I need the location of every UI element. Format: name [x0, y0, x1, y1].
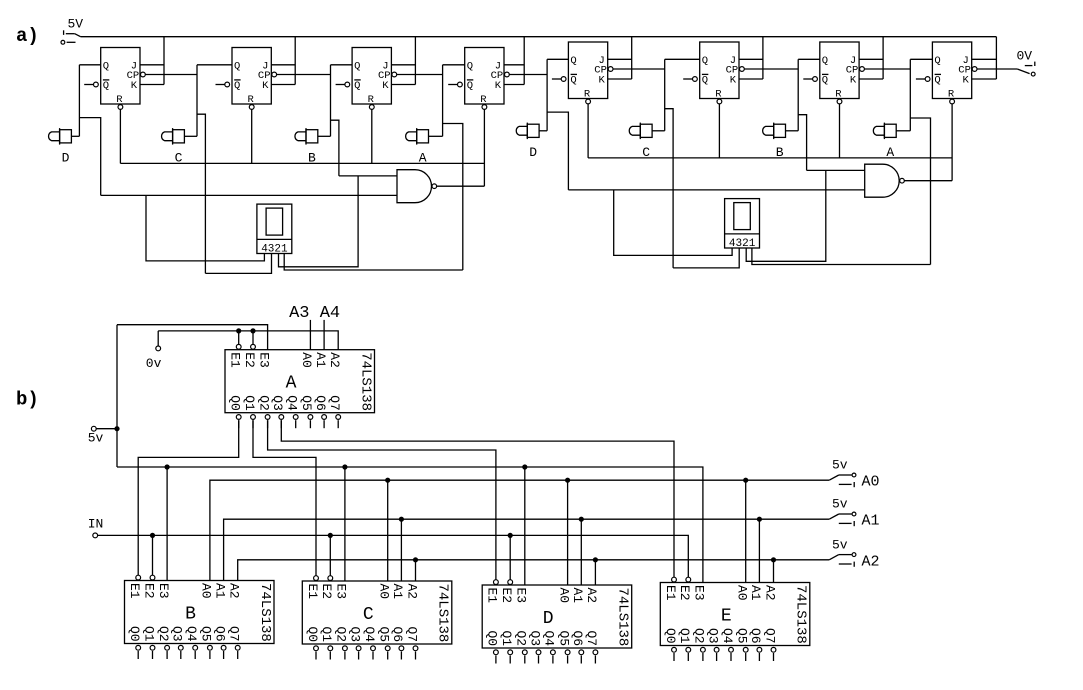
5V clock switch: [61, 17, 83, 45]
wire CPb2 from Qb3: [744, 68, 798, 70]
svg-text:E3: E3: [514, 588, 529, 604]
svg-text:Q6: Q6: [748, 628, 763, 644]
wire 5v to A.E3 and distribution: [97, 428, 118, 430]
svg-text:Q: Q: [234, 80, 240, 92]
wire Ra1 reset: [119, 109, 121, 163]
wire display a pin1: [284, 254, 463, 271]
svg-text:K: K: [730, 75, 737, 87]
svg-text:K: K: [599, 75, 606, 87]
svg-text:Q5: Q5: [735, 628, 750, 644]
svg-text:Q7: Q7: [327, 395, 342, 411]
wire 0v net to A.E1 A.E2 A.A2: [157, 331, 159, 346]
svg-text:Q0: Q0: [663, 628, 678, 644]
wire 5V rail: [81, 36, 997, 38]
svg-text:Q1: Q1: [677, 628, 692, 644]
svg-text:Q0: Q0: [228, 395, 243, 411]
svg-text:A2: A2: [584, 588, 599, 604]
wire CPb3 from Qb4: [864, 68, 910, 70]
wire Qa2 output: [197, 64, 232, 66]
wire CPb1 from Qb2: [613, 68, 665, 70]
indicator lamp aLB: [295, 128, 318, 145]
switch A1 5v: [829, 497, 879, 530]
svg-text:C: C: [363, 605, 374, 625]
svg-text:Q4: Q4: [542, 631, 557, 647]
wire Ra2 reset: [251, 109, 253, 163]
svg-text:E2: E2: [141, 583, 156, 599]
terminal IN: [88, 517, 104, 538]
wire Ja3/Ka3 tie to 5V rail: [391, 64, 415, 66]
svg-text:5V: 5V: [68, 17, 84, 32]
wire Qb3 output: [798, 58, 820, 60]
svg-text:B: B: [185, 605, 196, 625]
svg-text:E3: E3: [334, 584, 349, 600]
svg-text:A0: A0: [299, 352, 314, 368]
svg-text:E2: E2: [677, 585, 692, 601]
svg-text:A1: A1: [862, 513, 880, 530]
svg-text:E2: E2: [499, 588, 514, 604]
svg-text:Q5: Q5: [199, 626, 214, 642]
wire display b pin1: [752, 248, 931, 265]
svg-text:74LS138: 74LS138: [257, 583, 273, 642]
wire display b pin3: [673, 248, 739, 268]
svg-text:Q: Q: [103, 60, 109, 72]
svg-text:E1: E1: [305, 584, 320, 600]
svg-text:5v: 5v: [832, 537, 848, 552]
wire display a pin2: [279, 176, 359, 267]
svg-text:Q: Q: [354, 80, 360, 92]
svg-text:R: R: [584, 89, 591, 101]
svg-text:A: A: [286, 374, 297, 394]
svg-text:a): a): [16, 25, 39, 47]
indicator lamp bLC: [629, 123, 652, 140]
wire CPa2 from Qa3: [277, 74, 331, 76]
svg-text:A1: A1: [313, 352, 328, 368]
svg-text:E1: E1: [663, 585, 678, 601]
svg-text:74LS138: 74LS138: [793, 585, 809, 644]
svg-text:Q3: Q3: [705, 628, 720, 644]
svg-text:Q: Q: [570, 55, 576, 67]
svg-text:Q4: Q4: [184, 626, 199, 642]
wire NAND b output to reset: [904, 180, 952, 182]
svg-text:Q2: Q2: [334, 627, 349, 643]
flip-flop b1: [552, 42, 613, 104]
svg-text:E1: E1: [127, 583, 142, 599]
wire Rb1 reset: [587, 104, 589, 158]
wire A1 net: [224, 519, 830, 580]
svg-text:E: E: [721, 607, 732, 627]
svg-text:A2: A2: [862, 553, 880, 570]
svg-text:K: K: [131, 80, 138, 92]
svg-text:A0: A0: [735, 585, 750, 601]
svg-text:A0: A0: [862, 474, 880, 491]
terminal 0v: [146, 346, 162, 371]
svg-text:74LS138: 74LS138: [357, 352, 373, 411]
svg-text:R: R: [248, 94, 255, 106]
wire Ra4 reset: [483, 109, 485, 186]
svg-text:A2: A2: [762, 585, 777, 601]
wire NAND b input 2: [568, 189, 864, 191]
svg-text:A1: A1: [390, 584, 405, 600]
svg-text:E1: E1: [228, 352, 243, 368]
wire NAND a input 1: [339, 175, 397, 177]
svg-text:Q4: Q4: [362, 627, 377, 643]
svg-text:K: K: [850, 75, 857, 87]
svg-text:Q2: Q2: [514, 631, 529, 647]
flip-flop b3: [803, 42, 864, 104]
wire NAND a output to reset: [437, 185, 485, 187]
svg-text:Q5: Q5: [556, 631, 571, 647]
wire display a pin3: [205, 254, 271, 274]
svg-text:R: R: [368, 94, 375, 106]
svg-text:Q: Q: [467, 80, 473, 92]
svg-text:E2: E2: [242, 352, 257, 368]
svg-text:Q7: Q7: [762, 628, 777, 644]
indicator lamp aLD: [49, 128, 72, 145]
svg-text:E3: E3: [692, 585, 707, 601]
flip-flop a2: [216, 48, 277, 110]
decoder IC D 74LS138: [482, 580, 632, 664]
svg-text:Q5: Q5: [377, 627, 392, 643]
wire Qb3 branch: [798, 115, 806, 171]
svg-text:Q2: Q2: [692, 628, 707, 644]
wire Jb1/Kb1 tie to 5V rail: [608, 58, 632, 60]
wire A3 to A.A0: [309, 320, 311, 350]
svg-text:A0: A0: [199, 583, 214, 599]
wire Qa3 branch: [331, 120, 339, 176]
svg-text:Q4: Q4: [720, 628, 735, 644]
wire Qb4 branch: [910, 118, 930, 265]
svg-text:A3 A4: A3 A4: [289, 304, 340, 323]
wire Rb3 reset: [839, 104, 841, 158]
svg-text:K: K: [495, 80, 502, 92]
indicator lamp bLB: [763, 123, 786, 140]
NAND gate aN1: [397, 170, 437, 203]
svg-text:R: R: [480, 94, 487, 106]
indicator lamp bLA: [873, 123, 896, 140]
wire A.Q0 to B.E1: [138, 420, 239, 575]
svg-text:Q7: Q7: [584, 631, 599, 647]
wire A2 net: [238, 560, 830, 581]
svg-text:A2: A2: [404, 584, 419, 600]
svg-text:A1: A1: [212, 583, 227, 599]
wire Rb4 reset: [951, 104, 953, 181]
indicator lamp aLC: [162, 128, 185, 145]
wire Jb3/Kb3 tie to 5V rail: [859, 58, 883, 60]
svg-text:74LS138: 74LS138: [435, 584, 451, 643]
flip-flop b4: [916, 42, 977, 104]
indicator lamp bLD: [516, 123, 539, 140]
wire A4 to A.A1: [323, 320, 325, 350]
svg-text:R: R: [948, 89, 955, 101]
wire Jb4/Kb4 tie to 5V rail: [972, 58, 997, 60]
decoder IC A 74LS138: [225, 344, 375, 428]
svg-text:Q2: Q2: [156, 626, 171, 642]
svg-text:Q1: Q1: [319, 627, 334, 643]
svg-text:Q3: Q3: [270, 395, 285, 411]
svg-text:0v: 0v: [146, 356, 162, 371]
svg-text:E3: E3: [256, 352, 271, 368]
wire IN net to E2 pins: [98, 535, 688, 577]
wire NAND a input 2: [101, 194, 397, 196]
switch A0 5v: [829, 458, 879, 491]
svg-text:A1: A1: [570, 588, 585, 604]
svg-text:Q: Q: [702, 55, 708, 67]
wire Qa4 output: [443, 64, 465, 66]
flip-flop a1: [84, 48, 145, 110]
svg-text:IN: IN: [88, 517, 104, 532]
flip-flop b2: [683, 42, 744, 104]
svg-text:Q6: Q6: [570, 631, 585, 647]
svg-text:D: D: [62, 151, 70, 166]
svg-text:Q3: Q3: [527, 631, 542, 647]
wire A.Q3 to E.E1: [281, 420, 674, 577]
svg-text:Q7: Q7: [227, 626, 242, 642]
svg-text:A0: A0: [556, 588, 571, 604]
svg-text:Q: Q: [467, 60, 473, 72]
wire Qb2 branch: [665, 109, 673, 268]
svg-text:K: K: [963, 75, 970, 87]
switch A2 5v: [829, 537, 879, 570]
wire CPa1 from Qa2: [145, 74, 197, 76]
svg-text:Q: Q: [822, 75, 828, 87]
svg-text:Q: Q: [354, 60, 360, 72]
wire Jb2/Kb2 tie to 5V rail: [739, 58, 763, 60]
svg-text:5v: 5v: [832, 497, 848, 512]
decoder IC B 74LS138: [125, 575, 275, 659]
svg-text:Q: Q: [822, 55, 828, 67]
svg-text:Q0: Q0: [127, 626, 142, 642]
svg-text:Q3: Q3: [347, 627, 362, 643]
wire display a pin4: [146, 195, 264, 261]
svg-text:R: R: [116, 94, 123, 106]
svg-text:Q1: Q1: [499, 631, 514, 647]
wire CP8 to 0V switch: [977, 68, 1017, 70]
svg-text:R: R: [715, 89, 722, 101]
svg-text:E3: E3: [156, 583, 171, 599]
svg-text:5v: 5v: [88, 430, 104, 445]
flip-flop a4: [448, 48, 509, 110]
NAND gate bN1: [865, 164, 905, 197]
svg-text:5v: 5v: [832, 458, 848, 473]
wire Qa4 branch: [443, 124, 463, 271]
wire Qb1 output: [547, 58, 568, 60]
wire A.Q1 to C.E1: [253, 420, 316, 576]
wire Ja1/Ka1 tie to 5V rail: [140, 64, 164, 66]
wire CP4 from Q5: [509, 74, 547, 76]
svg-text:Q6: Q6: [313, 395, 328, 411]
svg-text:R: R: [835, 89, 842, 101]
wire Ra3 reset: [371, 109, 373, 163]
svg-text:Q: Q: [103, 80, 109, 92]
wire Rb2 reset: [718, 104, 720, 158]
terminal 5v: [88, 426, 104, 445]
svg-text:Q0: Q0: [305, 627, 320, 643]
svg-text:A0: A0: [377, 584, 392, 600]
wire Qb2 output: [665, 58, 700, 60]
wire Ja2/Ka2 tie to 5V rail: [271, 64, 295, 66]
svg-text:E1: E1: [485, 588, 500, 604]
svg-text:A2: A2: [227, 583, 242, 599]
svg-text:Q0: Q0: [485, 631, 500, 647]
7-segment display bDISP: [725, 199, 760, 251]
decoder IC E 74LS138: [660, 577, 810, 661]
svg-text:Q: Q: [934, 55, 940, 67]
svg-text:0V: 0V: [1017, 48, 1033, 63]
svg-text:Q7: Q7: [404, 627, 419, 643]
svg-text:Q3: Q3: [170, 626, 185, 642]
indicator lamp aLA: [406, 128, 429, 145]
wire NAND b input 1: [807, 169, 865, 171]
wire Qb1 branch: [547, 112, 568, 190]
svg-text:b): b): [16, 389, 39, 411]
svg-text:Q5: Q5: [299, 395, 314, 411]
svg-text:K: K: [262, 80, 269, 92]
svg-text:A2: A2: [327, 352, 342, 368]
wire Ja4/Ka4 tie to 5V rail: [504, 64, 524, 66]
wire A.Q2 to D.E1: [268, 420, 496, 580]
wire display b pin2: [746, 170, 826, 261]
wire display b pin4: [614, 190, 732, 256]
svg-text:Q2: Q2: [256, 395, 271, 411]
svg-text:Q6: Q6: [390, 627, 405, 643]
svg-text:D: D: [543, 609, 554, 629]
svg-text:E2: E2: [319, 584, 334, 600]
svg-text:Q1: Q1: [141, 626, 156, 642]
svg-text:Q: Q: [570, 75, 576, 87]
svg-text:Q: Q: [234, 60, 240, 72]
wire CPa3 from Qa4: [397, 74, 443, 76]
svg-text:D: D: [529, 145, 537, 160]
svg-text:Q4: Q4: [285, 395, 300, 411]
wire Qa3 output: [331, 64, 353, 66]
svg-text:Q: Q: [702, 75, 708, 87]
wire 5v distribution net: [117, 467, 703, 583]
wire A0 net: [210, 480, 829, 580]
wire reset net b: [588, 157, 952, 159]
svg-text:K: K: [382, 80, 389, 92]
svg-text:Q: Q: [934, 75, 940, 87]
wire Qa2 branch: [197, 114, 205, 273]
wire Qa1 output: [79, 64, 100, 66]
7-segment display aDISP: [257, 204, 292, 256]
svg-text:A1: A1: [748, 585, 763, 601]
0V clock switch: [1017, 48, 1036, 76]
svg-text:Q6: Q6: [212, 626, 227, 642]
svg-text:74LS138: 74LS138: [615, 588, 631, 647]
wire Qb4 output: [910, 58, 932, 60]
svg-text:Q1: Q1: [242, 395, 257, 411]
wire Qa1 branch: [79, 118, 100, 196]
wire reset net a: [120, 162, 484, 164]
decoder IC C 74LS138: [302, 576, 452, 660]
flip-flop a3: [336, 48, 397, 110]
